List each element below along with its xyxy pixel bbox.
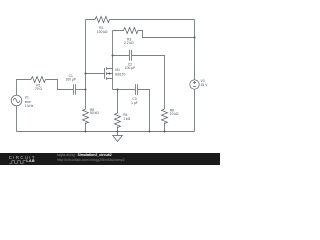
svg-text:100 µF: 100 µF xyxy=(66,78,76,82)
svg-text:50 kΩ: 50 kΩ xyxy=(90,111,99,115)
footer bar xyxy=(0,153,220,165)
wire gate lead xyxy=(86,73,105,75)
svg-text:1 kΩ: 1 kΩ xyxy=(123,117,130,121)
wire R4 to rail xyxy=(117,127,119,132)
wire C2 to R6 xyxy=(132,56,165,110)
node rail R5 xyxy=(85,131,87,133)
resistor R3 xyxy=(113,28,195,38)
voltage source V1 xyxy=(11,95,22,106)
wire C3 to rail xyxy=(138,90,150,132)
wire C2 branch left xyxy=(113,55,130,57)
capacitor C1 xyxy=(74,84,76,95)
wire source down xyxy=(112,79,114,90)
voltage source V3 xyxy=(190,80,199,89)
wire gate node vertical (R2 down to R5) xyxy=(85,20,87,110)
svg-text:1 kHz: 1 kHz xyxy=(25,104,34,108)
wire R5 to rail xyxy=(85,123,87,132)
wire V1 top to R1 xyxy=(17,80,32,96)
svg-text:2.2 kΩ: 2.2 kΩ xyxy=(124,41,134,45)
svg-text:BS170: BS170 xyxy=(115,73,125,77)
capacitor C3 xyxy=(136,84,138,95)
node rail R6 xyxy=(164,131,166,133)
resistor R5 xyxy=(83,109,89,124)
resistor R1 xyxy=(31,77,46,83)
node C1 junction xyxy=(85,89,87,91)
wire V3 top vertical xyxy=(194,20,196,80)
svg-text:100 kΩ: 100 kΩ xyxy=(97,30,108,34)
CircuitLab logo xyxy=(9,156,36,160)
footer text xyxy=(57,154,112,158)
svg-text:10 kΩ: 10 kΩ xyxy=(170,112,179,116)
svg-text:100 µF: 100 µF xyxy=(125,66,135,70)
wire bottom rail xyxy=(17,131,195,133)
svg-text:79 Ω: 79 Ω xyxy=(35,87,43,91)
wire source to C3 xyxy=(113,89,136,91)
wire R4 vertical xyxy=(117,90,119,114)
resistor R6 xyxy=(162,109,168,124)
node gate-wire junction xyxy=(85,73,87,75)
svg-text:1 µF: 1 µF xyxy=(131,101,138,105)
node rail C3 xyxy=(149,131,151,133)
wire R6 to rail xyxy=(164,123,166,132)
resistor R2 xyxy=(86,17,195,23)
node rail ground xyxy=(117,131,119,133)
transistor M1 xyxy=(105,67,113,80)
capacitor C2 xyxy=(130,50,132,61)
wire C1 to gate node xyxy=(76,89,86,91)
node R3 V3 junction xyxy=(194,37,196,39)
wire V3 bottom xyxy=(194,89,196,131)
node C2 drain junction xyxy=(112,55,114,57)
wire R1 to C1 (step down) xyxy=(46,80,74,90)
node R4 source junction xyxy=(117,89,119,91)
wire drain node vertical xyxy=(112,31,114,69)
ground xyxy=(113,132,123,142)
wire V1 bottom xyxy=(16,106,18,132)
resistor R4 xyxy=(115,113,121,128)
svg-text:15 V: 15 V xyxy=(201,83,209,87)
